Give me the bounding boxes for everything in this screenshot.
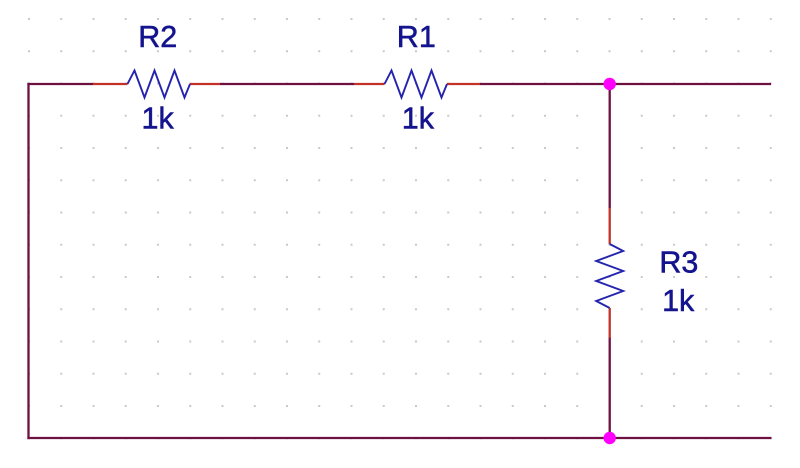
- wire top segment left: [27, 83, 93, 85]
- wire left vertical: [27, 83, 29, 439]
- resistor R3: [596, 208, 623, 338]
- wire bottom: [27, 437, 771, 439]
- svg-text:1k: 1k: [142, 102, 175, 136]
- wire top segment middle: [220, 83, 354, 85]
- wire right vertical lower: [609, 337, 611, 438]
- svg-text:1k: 1k: [402, 102, 435, 136]
- wire right vertical upper: [609, 84, 611, 208]
- resistor R1: [354, 71, 480, 98]
- junction bottom: [604, 432, 616, 444]
- svg-text:R1: R1: [397, 20, 436, 54]
- resistor R2: [93, 71, 220, 98]
- wire top segment right: [480, 83, 771, 85]
- svg-text:R3: R3: [659, 246, 698, 280]
- junction top: [604, 78, 616, 90]
- svg-text:R2: R2: [138, 20, 177, 54]
- svg-text:1k: 1k: [662, 284, 695, 318]
